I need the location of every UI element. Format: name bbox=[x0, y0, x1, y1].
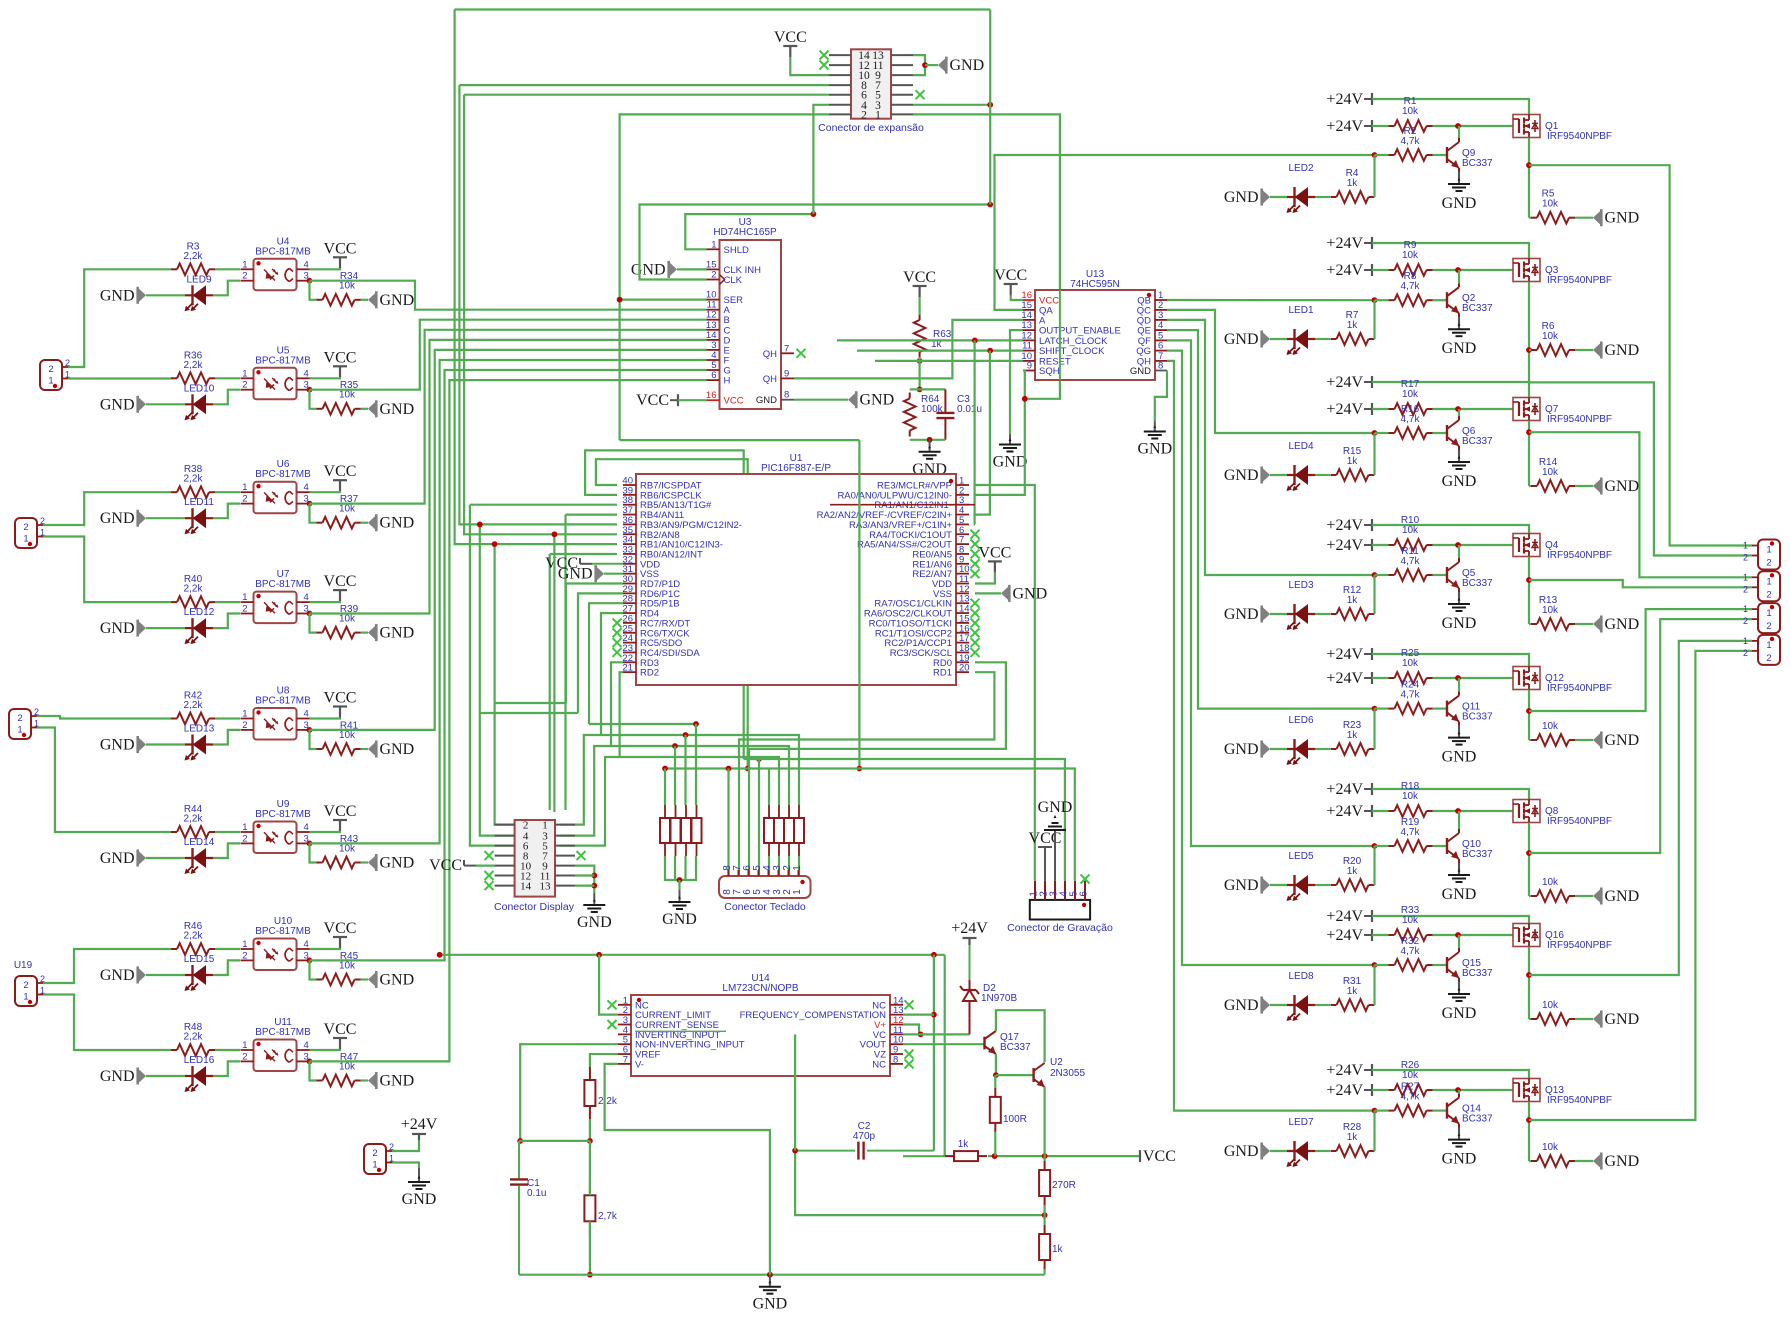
wire led node up bbox=[1373, 575, 1375, 614]
connector Conector de expansao bbox=[851, 49, 891, 118]
svg-text:2: 2 bbox=[242, 1051, 247, 1062]
pin 3 bbox=[1054, 881, 1056, 900]
wire gate node bbox=[1433, 269, 1514, 271]
svg-text:1: 1 bbox=[875, 109, 881, 121]
svg-text:SQH: SQH bbox=[1039, 366, 1060, 377]
svg-text:U2: U2 bbox=[1050, 1057, 1063, 1068]
resistor R11 4,7k bbox=[1389, 574, 1395, 576]
pin 3 CURRENT_SENSE bbox=[618, 1024, 631, 1026]
svg-text:1: 1 bbox=[242, 1040, 247, 1051]
wire teclado p5 up bbox=[758, 759, 760, 876]
ground bbox=[1458, 317, 1460, 329]
power +24V above D2 bbox=[969, 945, 971, 980]
svg-text:2: 2 bbox=[1743, 553, 1748, 563]
wire bbox=[310, 377, 341, 378]
connector Conector Display bbox=[515, 820, 555, 897]
pin 1 QB bbox=[1155, 299, 1167, 301]
wire bbox=[361, 978, 369, 980]
pin 12 LATCH_CLOCK bbox=[1023, 339, 1035, 341]
svg-text:1: 1 bbox=[372, 1160, 377, 1171]
pin 8 GND bbox=[1155, 370, 1167, 372]
svg-text:1: 1 bbox=[1743, 572, 1748, 582]
wire net RB0 riser bbox=[550, 553, 617, 555]
pin 1 SHLD bbox=[707, 248, 720, 250]
svg-text:VCC: VCC bbox=[324, 573, 357, 590]
junction bbox=[591, 873, 597, 879]
wire net CLK loop bbox=[640, 205, 991, 280]
pin 31 VSS bbox=[623, 573, 636, 575]
ground bbox=[1458, 726, 1460, 738]
wire R64/C3 loop bottom bbox=[910, 439, 946, 441]
resistor R20 1k bbox=[1331, 884, 1337, 886]
power +24V Q16 gate bbox=[1371, 929, 1373, 941]
power VCC bbox=[339, 590, 341, 601]
capacitor C1 0.1u bbox=[518, 1141, 520, 1179]
wire row keypad common bbox=[665, 769, 1075, 881]
wire bbox=[310, 718, 341, 719]
svg-text:GND: GND bbox=[1605, 616, 1640, 633]
pin 32 VDD bbox=[623, 563, 636, 565]
resistor 2,7k bbox=[584, 1195, 595, 1221]
svg-text:4: 4 bbox=[304, 368, 309, 379]
wire bbox=[215, 601, 240, 603]
svg-text:4: 4 bbox=[304, 259, 309, 270]
svg-text:GND: GND bbox=[1224, 997, 1259, 1014]
wire base node left bbox=[1375, 707, 1389, 709]
wire bbox=[790, 57, 829, 75]
wire bbox=[678, 880, 680, 890]
wire base node left bbox=[1375, 574, 1389, 576]
wire bbox=[310, 948, 341, 949]
wire bbox=[994, 1075, 996, 1088]
svg-text:10k: 10k bbox=[339, 843, 356, 854]
wire net U6 output to U3 bbox=[310, 330, 707, 504]
no-connect X pin 26 bbox=[613, 618, 622, 627]
wire bbox=[1315, 338, 1330, 340]
pin 19 RD0 bbox=[956, 661, 969, 663]
LED LED11 bbox=[185, 517, 213, 519]
junction base node bbox=[1372, 152, 1378, 158]
no-connect X pin 10 bbox=[971, 569, 980, 578]
wire expansion pin1 crossing over U13 bbox=[1059, 290, 1061, 380]
wire drain to resistor bbox=[1529, 739, 1531, 741]
wire row RD4 east bbox=[601, 735, 799, 805]
svg-text:1: 1 bbox=[1743, 604, 1748, 614]
wire row RD6 to display bbox=[480, 713, 578, 836]
wire gate node bbox=[1433, 810, 1514, 812]
pin 24 RC5/SDO bbox=[623, 642, 636, 644]
junction bbox=[972, 338, 978, 344]
wire drain to resistor bbox=[1529, 1018, 1531, 1020]
pin 21 RD2 bbox=[623, 671, 636, 673]
pin 15 CLK INH bbox=[707, 268, 720, 270]
svg-text:VCC: VCC bbox=[724, 396, 744, 407]
svg-text:10k: 10k bbox=[1402, 525, 1419, 536]
wire RD line down bbox=[566, 584, 623, 704]
no-connect X gravacao pin 6 bbox=[1081, 875, 1090, 884]
power +24V Q13 top bbox=[1371, 1064, 1373, 1076]
wire bbox=[620, 299, 707, 301]
wire base node left bbox=[1375, 845, 1389, 847]
wire net top bus to RB1 bbox=[455, 10, 617, 545]
ground flag bbox=[368, 402, 375, 415]
wire bbox=[215, 717, 240, 719]
wire GND loop pins 13/11/9 bbox=[913, 55, 925, 75]
LED LED15 bbox=[185, 974, 213, 976]
zener diode D2 1N970B bbox=[969, 1018, 971, 1034]
resistor R17 10k bbox=[1389, 408, 1395, 410]
junction gate/collector bbox=[1455, 1087, 1461, 1093]
power +24V Q12 top bbox=[1371, 648, 1373, 660]
pin 1 bbox=[1034, 881, 1036, 900]
wire bbox=[1315, 613, 1330, 615]
wire C1 row bbox=[519, 1140, 590, 1142]
wire bbox=[1270, 613, 1287, 615]
wire MOSFET drain bbox=[1528, 947, 1530, 1020]
wire 1k feed down bbox=[942, 955, 945, 1156]
junction gate/collector bbox=[1455, 808, 1461, 814]
wire row RD4 bbox=[560, 735, 601, 825]
wire bbox=[1372, 1089, 1389, 1091]
LED LED3 bbox=[1287, 613, 1315, 615]
svg-text:10k: 10k bbox=[1542, 1000, 1559, 1011]
junction node U8 pin3 bbox=[307, 727, 313, 733]
no-connect X pin 8 bbox=[971, 549, 980, 558]
pin 2 RA0/AN0/ULPWU/C12IN0- bbox=[956, 494, 969, 496]
svg-text:4,7k: 4,7k bbox=[1401, 281, 1421, 292]
ground bbox=[1458, 1128, 1460, 1140]
wire emitter to ground bbox=[1458, 1128, 1460, 1135]
wire gate node bbox=[1433, 544, 1514, 546]
resistor pack element bbox=[764, 818, 774, 843]
connector output 1 bbox=[1758, 540, 1780, 570]
resistor R48 2,2k bbox=[171, 1049, 177, 1051]
svg-text:GND: GND bbox=[100, 396, 135, 413]
svg-text:IRF9540NPBF: IRF9540NPBF bbox=[1547, 550, 1612, 561]
svg-text:2,2k: 2,2k bbox=[184, 1032, 204, 1043]
pin 29 RD6/P1C bbox=[623, 592, 636, 594]
svg-text:2: 2 bbox=[372, 1148, 377, 1159]
junction bbox=[918, 1031, 924, 1037]
wire gate node bbox=[1433, 677, 1514, 679]
ground flag bbox=[368, 516, 375, 529]
svg-text:74HC595N: 74HC595N bbox=[1070, 279, 1119, 290]
connector +24V input bbox=[364, 1144, 386, 1174]
svg-text:GND: GND bbox=[1442, 1005, 1477, 1022]
wire bbox=[146, 403, 185, 405]
svg-text:1k: 1k bbox=[1052, 1244, 1064, 1255]
svg-text:V-: V- bbox=[635, 1059, 644, 1070]
wire bbox=[975, 572, 995, 583]
svg-text:LED8: LED8 bbox=[1288, 971, 1313, 982]
svg-text:BC337: BC337 bbox=[1462, 1114, 1493, 1125]
resistor R14 bbox=[1531, 485, 1537, 487]
wire bbox=[620, 439, 860, 441]
resistor R2 4,7k bbox=[1389, 154, 1395, 156]
pin 5 bbox=[1074, 881, 1076, 900]
svg-text:2,2k: 2,2k bbox=[184, 931, 204, 942]
pin 6 bbox=[1084, 881, 1086, 900]
svg-text:VCC: VCC bbox=[324, 240, 357, 257]
svg-text:BPC-817MB: BPC-817MB bbox=[255, 1027, 311, 1038]
wire mid vertical riser from RB2 bbox=[553, 534, 555, 812]
wire bbox=[146, 294, 185, 296]
svg-text:GND: GND bbox=[1442, 340, 1477, 357]
pin 10 VOUT bbox=[890, 1043, 903, 1045]
svg-text:VCC: VCC bbox=[636, 392, 669, 409]
svg-text:LED6: LED6 bbox=[1288, 715, 1313, 726]
wire bbox=[1575, 895, 1593, 897]
pin 9 RE1/AN6 bbox=[956, 563, 969, 565]
ground flag U1 right VSS bbox=[1001, 587, 1008, 600]
svg-text:+24V: +24V bbox=[1326, 1062, 1363, 1079]
pin 11 A bbox=[707, 309, 720, 311]
wire bbox=[975, 592, 1001, 594]
pin 20 RD1 bbox=[956, 671, 969, 673]
LED LED2 bbox=[1287, 196, 1315, 198]
wire bbox=[361, 408, 369, 410]
wire bbox=[361, 522, 369, 524]
svg-text:RD2: RD2 bbox=[640, 668, 659, 679]
pin 12 V+ bbox=[890, 1024, 903, 1026]
resistor R43 10k bbox=[317, 862, 323, 864]
wire led node up bbox=[1373, 965, 1375, 1005]
svg-text:1: 1 bbox=[242, 939, 247, 950]
wire bbox=[146, 743, 185, 745]
wire net LATCH_CLOCK bbox=[837, 339, 1023, 341]
no-connect X display pin 14 bbox=[485, 881, 494, 890]
junction bbox=[477, 522, 483, 528]
resistor R9 10k bbox=[1389, 269, 1395, 271]
pin 27 RD4 bbox=[623, 612, 636, 614]
wire bbox=[213, 843, 240, 858]
wire drain to connector bbox=[1529, 651, 1752, 1120]
svg-text:2: 2 bbox=[1766, 621, 1771, 632]
pin 1 RE3/MCLR#/VPP bbox=[956, 484, 969, 486]
connector output 4 bbox=[1758, 635, 1780, 665]
power +24V Q4 top bbox=[1371, 519, 1373, 531]
wire bbox=[392, 1140, 419, 1151]
ground flag bbox=[1263, 743, 1270, 756]
ground bbox=[1458, 592, 1460, 604]
junction node U6 pin3 bbox=[307, 501, 313, 507]
ground flag bbox=[368, 973, 375, 986]
wire bbox=[146, 974, 185, 976]
svg-text:+24V: +24V bbox=[1326, 91, 1363, 108]
wire C2 left riser bbox=[794, 1034, 796, 1150]
wire gravacao p4 row bbox=[744, 759, 1065, 881]
wire base bbox=[1433, 299, 1448, 301]
svg-text:2: 2 bbox=[711, 270, 716, 281]
wire bbox=[1575, 349, 1593, 351]
wire drain to connector bbox=[1529, 382, 1752, 555]
junction bbox=[931, 952, 937, 958]
transistor Q9 BC337 bbox=[1446, 147, 1448, 163]
pin 5 bbox=[758, 870, 760, 876]
pin 14 RA6/OSC2/CLKOUT bbox=[956, 612, 969, 614]
svg-text:1: 1 bbox=[792, 865, 803, 871]
pin 26 RC7/RX/DT bbox=[623, 622, 636, 624]
svg-text:BC337: BC337 bbox=[1462, 436, 1493, 447]
svg-text:+24V: +24V bbox=[1326, 537, 1363, 554]
svg-text:+24V: +24V bbox=[1326, 235, 1363, 252]
LED LED4 bbox=[1287, 474, 1315, 476]
svg-text:4,7k: 4,7k bbox=[1401, 690, 1421, 701]
svg-text:GND: GND bbox=[1224, 1143, 1259, 1160]
resistor 10k bbox=[1531, 1160, 1537, 1162]
ground flag bbox=[139, 969, 146, 982]
pin 15 RC0/T1OSO/T1CKI bbox=[956, 622, 969, 624]
ground flag bbox=[1593, 734, 1600, 747]
ground flag U3 pin 8 bbox=[848, 393, 855, 406]
resistor 10k bbox=[1531, 1018, 1537, 1020]
svg-text:LED4: LED4 bbox=[1288, 441, 1313, 452]
wire bbox=[1575, 485, 1593, 487]
resistor pack element bbox=[692, 818, 702, 843]
wire net RB4 riser bbox=[566, 513, 618, 515]
svg-text:4,7k: 4,7k bbox=[1401, 827, 1421, 838]
ground flag bbox=[368, 743, 375, 756]
resistor R1 10k bbox=[1389, 125, 1395, 127]
resistor R26 10k bbox=[1389, 1089, 1395, 1091]
LED LED13 bbox=[185, 743, 213, 745]
svg-text:BPC-817MB: BPC-817MB bbox=[255, 246, 311, 257]
pin 7 QH bbox=[1155, 360, 1167, 362]
wire MOSFET drain bbox=[1528, 1102, 1530, 1162]
svg-text:2: 2 bbox=[1766, 558, 1771, 569]
svg-text:HD74HC165P: HD74HC165P bbox=[713, 227, 777, 238]
svg-text:VCC: VCC bbox=[429, 857, 462, 874]
power +24V Q8 top bbox=[1371, 783, 1373, 795]
svg-text:10k: 10k bbox=[1542, 1142, 1559, 1153]
svg-text:7: 7 bbox=[784, 343, 789, 354]
wire bbox=[1270, 196, 1287, 198]
pin 11 VC bbox=[890, 1033, 903, 1035]
svg-text:0.01u: 0.01u bbox=[957, 404, 982, 415]
no-connect X pin 6 bbox=[971, 530, 980, 539]
svg-text:+24V: +24V bbox=[1326, 781, 1363, 798]
wire pack1 tops bbox=[664, 769, 666, 806]
ground flag bbox=[368, 856, 375, 869]
svg-text:GND: GND bbox=[950, 57, 985, 74]
svg-text:LED11: LED11 bbox=[184, 497, 214, 508]
wire +24V to MOSFET source bbox=[1372, 382, 1529, 398]
svg-text:+24V: +24V bbox=[951, 920, 988, 937]
junction bbox=[552, 531, 558, 537]
power +24V Q3 top bbox=[1371, 237, 1373, 249]
wire U13 output to block bbox=[1167, 330, 1375, 708]
transistor U2 2N3055 bbox=[1032, 1068, 1034, 1082]
wire collector to gate node bbox=[1458, 811, 1460, 829]
wire bbox=[361, 631, 369, 633]
no-connect X pin 16 bbox=[971, 628, 980, 637]
wire row RD3 bbox=[560, 746, 611, 836]
svg-text:2: 2 bbox=[242, 833, 247, 844]
wire base node left bbox=[1375, 154, 1389, 156]
wire bbox=[146, 517, 185, 519]
junction bbox=[517, 1138, 523, 1144]
wire RD1 loop bbox=[739, 672, 994, 876]
svg-text:GND: GND bbox=[100, 510, 135, 527]
wire base bbox=[1433, 1109, 1448, 1111]
wire bbox=[1315, 1150, 1330, 1152]
resistor R12 1k bbox=[1331, 613, 1337, 615]
pin 3 bbox=[778, 870, 780, 876]
pins 12/11 bbox=[495, 875, 515, 877]
ground bbox=[418, 1168, 420, 1182]
power +24V Q1 top bbox=[1371, 93, 1373, 105]
overline INVERTING_INPUT bbox=[635, 1030, 726, 1032]
pin 11 SHIFT_CLOCK bbox=[1023, 350, 1035, 352]
svg-text:IRF9540NPBF: IRF9540NPBF bbox=[1547, 414, 1612, 425]
wire net crossing U1 box bbox=[858, 440, 860, 768]
svg-text:1k: 1k bbox=[1347, 986, 1359, 997]
svg-text:4: 4 bbox=[304, 822, 309, 833]
ground flag bbox=[1263, 191, 1270, 204]
capacitor C2 470p bbox=[795, 1150, 855, 1152]
wire bbox=[1315, 884, 1330, 886]
no-connect X U14 pin 3 bbox=[608, 1020, 617, 1029]
svg-text:LED2: LED2 bbox=[1288, 163, 1313, 174]
svg-text:2: 2 bbox=[1766, 653, 1771, 664]
svg-text:GND: GND bbox=[577, 914, 612, 931]
wire bbox=[310, 831, 341, 832]
svg-text:QH: QH bbox=[763, 374, 777, 385]
wire net RB6/ICSPCLK to gravacao bbox=[585, 450, 744, 759]
svg-text:2,2k: 2,2k bbox=[184, 700, 204, 711]
no-connect X pin 9 bbox=[971, 559, 980, 568]
svg-text:GND: GND bbox=[380, 625, 415, 642]
wire +24V to MOSFET source bbox=[1372, 916, 1529, 924]
wire drain to connector bbox=[1529, 641, 1752, 975]
svg-text:BC337: BC337 bbox=[1462, 968, 1493, 979]
svg-text:GND: GND bbox=[380, 741, 415, 758]
wire bbox=[575, 874, 594, 876]
resistor R39 10k bbox=[317, 632, 323, 634]
svg-text:BPC-817MB: BPC-817MB bbox=[255, 696, 311, 707]
wire VCC output row bbox=[988, 1155, 1140, 1157]
svg-text:4: 4 bbox=[304, 482, 309, 493]
wire expansion pin 3 right bbox=[913, 104, 990, 106]
ground flag bbox=[1593, 1013, 1600, 1026]
wire bbox=[215, 491, 240, 493]
wire bbox=[925, 64, 938, 66]
junction bbox=[745, 766, 751, 772]
svg-text:20: 20 bbox=[959, 663, 970, 674]
pin 14 D bbox=[707, 339, 720, 341]
wire bbox=[146, 627, 185, 629]
wire collector to gate node bbox=[1458, 126, 1460, 138]
optocoupler U6 bbox=[254, 482, 297, 514]
wire base node left bbox=[1375, 964, 1389, 966]
transistor Q1 IRF9540NPBF bbox=[1513, 115, 1540, 138]
svg-text:6: 6 bbox=[711, 370, 716, 381]
pin 4 RA2/AN2/VREF-/CVREF/C2IN+ bbox=[956, 514, 969, 516]
wire bbox=[589, 1221, 591, 1274]
junction bbox=[987, 348, 993, 354]
svg-text:470p: 470p bbox=[853, 1131, 876, 1142]
svg-text:10k: 10k bbox=[1542, 199, 1559, 210]
svg-text:VCC: VCC bbox=[1029, 830, 1062, 847]
LED LED6 bbox=[1287, 748, 1315, 750]
svg-text:+24V: +24V bbox=[1326, 262, 1363, 279]
wire Q17 collector bbox=[996, 1010, 1045, 1062]
svg-text:LED14: LED14 bbox=[184, 837, 215, 848]
junction bbox=[693, 721, 699, 727]
IC U13 74HC595N bbox=[1035, 290, 1155, 380]
wire bbox=[1043, 1269, 1045, 1275]
transistor Q7 IRF9540NPBF bbox=[1513, 398, 1540, 421]
